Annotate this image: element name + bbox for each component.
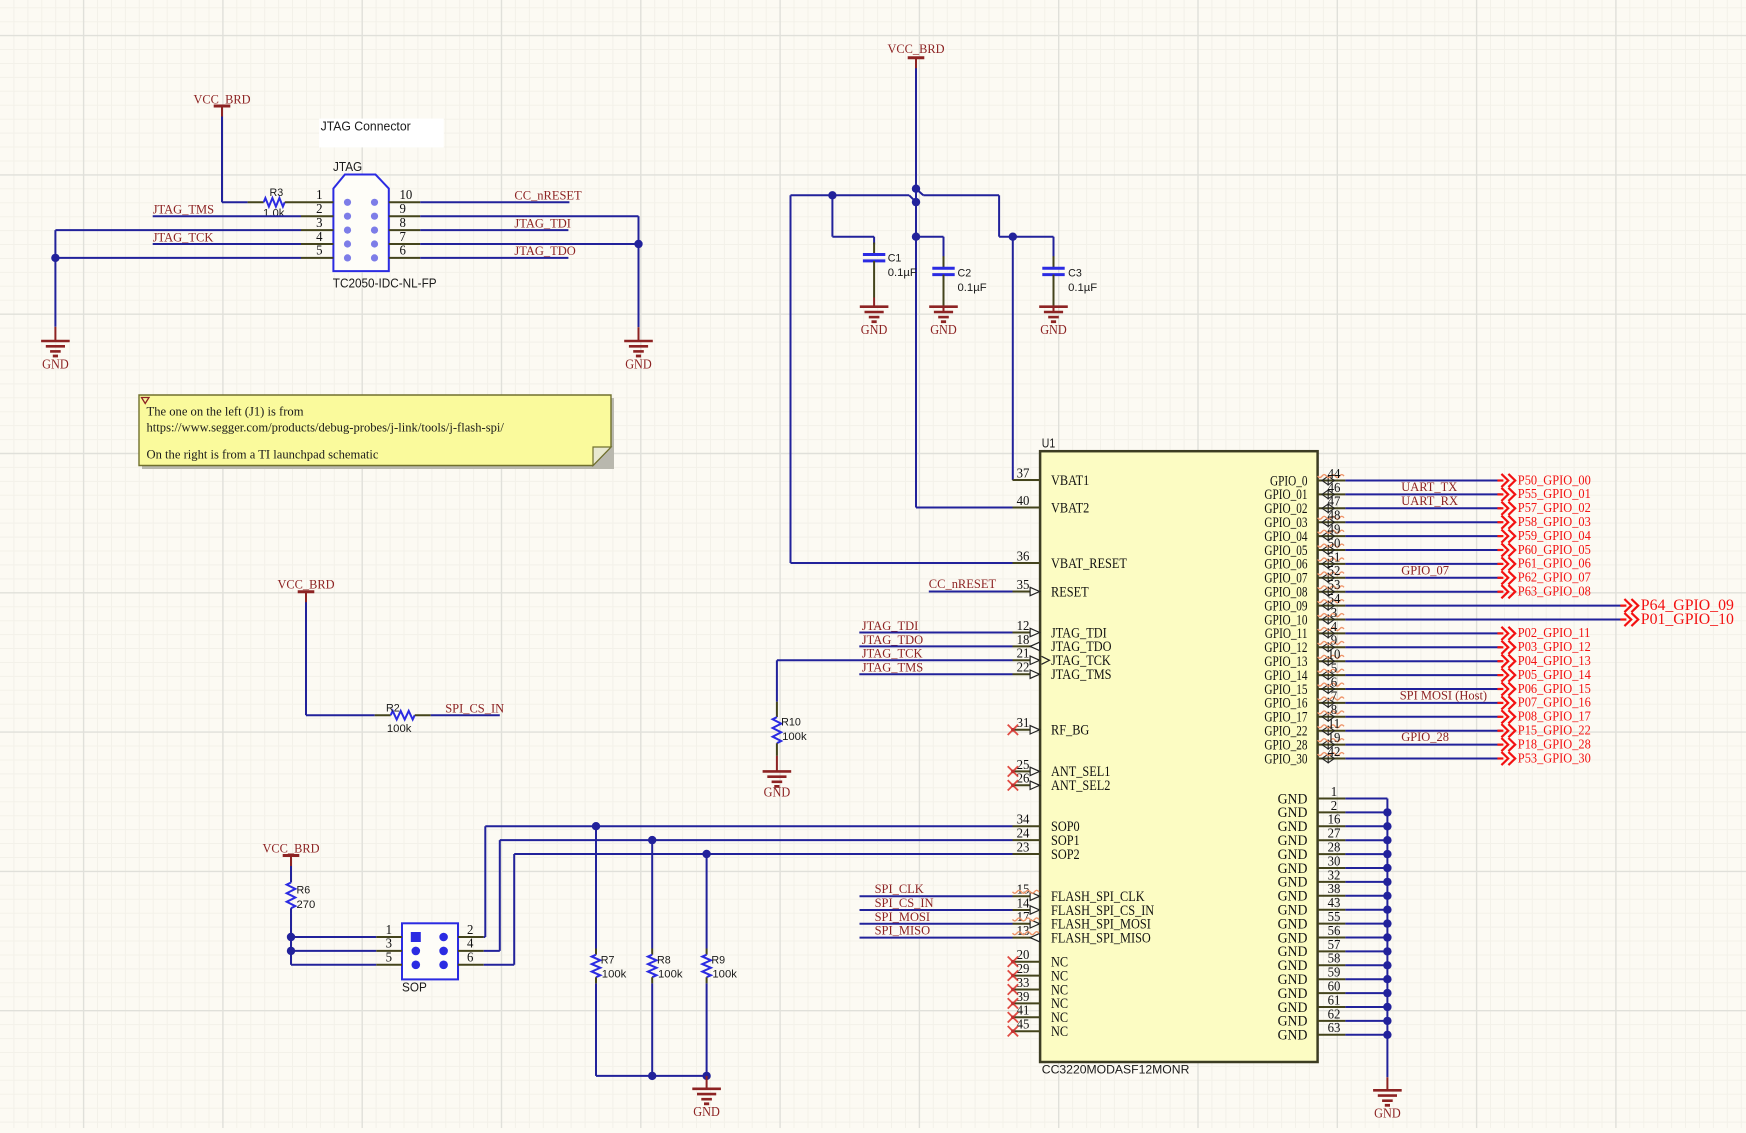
svg-text:3: 3 <box>316 215 323 230</box>
ground (left) <box>41 327 70 372</box>
pin 26 ANT_SEL2 <box>1008 771 1111 794</box>
pin 24 SOP1 <box>1013 826 1080 849</box>
pin 9 GPIO_12 <box>1264 633 1345 656</box>
svg-text:GND: GND <box>861 322 888 337</box>
wire <box>1345 839 1387 841</box>
junction <box>828 191 836 199</box>
resistor R9 100k <box>702 854 737 1076</box>
port P62_GPIO_07 <box>1497 571 1590 586</box>
net label SPI_MOSI <box>875 909 931 924</box>
svg-text:CC_nRESET: CC_nRESET <box>929 576 996 591</box>
wire JTAG_TDO <box>420 257 568 259</box>
svg-text:R3: R3 <box>270 187 284 199</box>
svg-text:P60_GPIO_05: P60_GPIO_05 <box>1518 543 1591 558</box>
svg-text:JTAG_TCK: JTAG_TCK <box>862 646 923 661</box>
pin 1 GND <box>1278 784 1346 807</box>
wire right branch <box>916 189 1054 237</box>
port P01_GPIO_10 <box>1620 611 1734 628</box>
wire <box>1345 549 1501 551</box>
svg-text:SPI_CS_IN: SPI_CS_IN <box>875 895 935 910</box>
pin 44 GPIO_0 <box>1270 466 1345 489</box>
wire <box>1345 730 1501 732</box>
resistor R10 100k <box>773 702 807 756</box>
wire to VBAT_RESET <box>791 195 1013 563</box>
pin 13 FLASH_SPI_MISO <box>1013 923 1151 946</box>
port P64_GPIO_09 <box>1620 597 1734 614</box>
svg-text:P08_GPIO_17: P08_GPIO_17 <box>1518 710 1591 725</box>
wire <box>1345 688 1501 690</box>
net label GPIO_28 <box>1401 729 1449 744</box>
junction <box>1383 850 1391 858</box>
net label SPI_CLK <box>875 881 925 896</box>
wire CC_nRESET <box>420 201 569 203</box>
junction <box>1383 836 1391 844</box>
svg-text:41: 41 <box>1017 1003 1030 1018</box>
wire <box>1345 480 1501 482</box>
svg-text:45: 45 <box>1017 1017 1030 1032</box>
svg-text:R2: R2 <box>386 703 400 715</box>
pin 17 FLASH_SPI_MOSI <box>1013 909 1151 932</box>
svg-text:1: 1 <box>386 922 392 937</box>
pin 22 JTAG_TMS <box>1013 660 1112 683</box>
svg-text:7: 7 <box>1331 688 1338 703</box>
wire to VBAT2 <box>916 507 1013 509</box>
wire JTAG_TMS <box>153 215 301 217</box>
junction <box>1383 808 1391 816</box>
svg-text:44: 44 <box>1328 466 1341 481</box>
svg-text:ANT_SEL2: ANT_SEL2 <box>1051 778 1110 794</box>
wire <box>1345 507 1501 509</box>
junction <box>1383 864 1391 872</box>
svg-text:57: 57 <box>1328 937 1341 952</box>
pin 56 GND <box>1278 923 1346 946</box>
wire <box>1345 744 1501 746</box>
svg-text:20: 20 <box>1017 947 1030 962</box>
svg-text:GND: GND <box>1374 1106 1401 1121</box>
svg-text:GND: GND <box>625 356 652 371</box>
wire <box>1345 619 1624 621</box>
junction <box>1383 961 1391 969</box>
svg-text:21: 21 <box>1017 646 1030 661</box>
svg-text:19: 19 <box>1328 730 1341 745</box>
svg-text:48: 48 <box>1328 508 1341 523</box>
svg-text:JTAG_TMS: JTAG_TMS <box>862 660 923 675</box>
port P63_GPIO_08 <box>1497 585 1590 600</box>
svg-text:P62_GPIO_07: P62_GPIO_07 <box>1518 571 1591 586</box>
wire JTAG_TDI <box>420 229 568 231</box>
svg-text:33: 33 <box>1017 975 1030 990</box>
wire SPI_MOSI <box>860 923 1013 925</box>
svg-text:49: 49 <box>1328 522 1341 537</box>
junction <box>1383 947 1391 955</box>
pin 62 GND <box>1278 1006 1346 1029</box>
svg-text:50: 50 <box>1328 535 1341 550</box>
capacitor C3 0.1uF <box>1042 237 1097 312</box>
svg-text:SPI_MOSI: SPI_MOSI <box>875 909 931 924</box>
wire SOP pin4 to SOP1 <box>484 840 1013 951</box>
svg-text:0.1µF: 0.1µF <box>1068 282 1097 294</box>
svg-text:CC_nRESET: CC_nRESET <box>514 188 581 203</box>
svg-text:JTAG Connector: JTAG Connector <box>321 118 412 133</box>
svg-text:3: 3 <box>386 936 393 951</box>
svg-text:5: 5 <box>386 950 393 965</box>
wire <box>1345 493 1501 495</box>
svg-text:VBAT_RESET: VBAT_RESET <box>1051 556 1127 572</box>
svg-text:100k: 100k <box>658 969 683 981</box>
resistor R7 100k <box>592 826 627 1076</box>
pin 11 GPIO_22 <box>1264 716 1345 739</box>
svg-text:10: 10 <box>400 187 413 202</box>
svg-text:61: 61 <box>1328 992 1341 1007</box>
svg-text:10: 10 <box>1328 647 1341 662</box>
svg-text:VBAT1: VBAT1 <box>1051 473 1089 489</box>
pin 5 GPIO_14 <box>1264 661 1345 684</box>
junction <box>634 240 642 248</box>
connector SOP <box>376 922 483 995</box>
ground (U1) <box>1373 1077 1402 1120</box>
junction <box>912 185 920 193</box>
svg-text:27: 27 <box>1328 826 1341 841</box>
svg-text:VCC_BRD: VCC_BRD <box>263 841 320 856</box>
svg-text:P03_GPIO_12: P03_GPIO_12 <box>1518 640 1591 655</box>
pin 61 GND <box>1278 992 1346 1015</box>
pin 20 NC <box>1008 947 1068 970</box>
svg-text:JTAG_TMS: JTAG_TMS <box>1051 667 1112 683</box>
pin 57 GND <box>1278 937 1346 960</box>
svg-text:46: 46 <box>1328 480 1341 495</box>
wire <box>1345 825 1387 827</box>
svg-text:GND: GND <box>930 322 957 337</box>
svg-text:GND: GND <box>693 1104 720 1119</box>
svg-text:P15_GPIO_22: P15_GPIO_22 <box>1518 724 1591 739</box>
svg-text:12: 12 <box>1017 618 1030 633</box>
pin 39 NC <box>1008 989 1068 1012</box>
svg-text:22: 22 <box>1017 660 1030 675</box>
ground (below R9) <box>692 1076 721 1119</box>
svg-text:63: 63 <box>1328 1020 1341 1035</box>
svg-text:UART_TX: UART_TX <box>1401 479 1458 494</box>
svg-text:62: 62 <box>1328 1006 1341 1021</box>
svg-text:53: 53 <box>1328 577 1341 592</box>
svg-text:3: 3 <box>1331 605 1338 620</box>
pin 10 GPIO_13 <box>1264 647 1345 670</box>
svg-text:2: 2 <box>467 922 473 937</box>
net label CC_nRESET (U1) <box>929 576 996 591</box>
svg-text:P05_GPIO_14: P05_GPIO_14 <box>1518 668 1591 683</box>
wire pin5 <box>55 257 301 259</box>
pin 6 GPIO_15 <box>1264 674 1345 697</box>
svg-text:100k: 100k <box>387 723 412 735</box>
svg-text:On the right is from a TI laun: On the right is from a TI launchpad sche… <box>147 448 379 462</box>
svg-text:6: 6 <box>467 950 474 965</box>
svg-text:270: 270 <box>297 899 316 911</box>
svg-text:P55_GPIO_01: P55_GPIO_01 <box>1518 487 1591 502</box>
svg-text:VBAT2: VBAT2 <box>1051 500 1089 516</box>
pin 8 GPIO_17 <box>1264 702 1345 725</box>
pin 30 GND <box>1278 853 1346 876</box>
pin 40 VBAT2 <box>1013 493 1090 516</box>
svg-text:100k: 100k <box>782 731 807 743</box>
junction <box>702 850 710 858</box>
junction <box>1009 233 1017 241</box>
svg-text:40: 40 <box>1017 493 1030 508</box>
pin 18 JTAG_TDO <box>1013 632 1112 655</box>
junction <box>1383 933 1391 941</box>
wire resistor bottoms <box>596 1075 707 1077</box>
wire JTAG_TMS <box>859 673 1012 675</box>
ground <box>1039 307 1068 337</box>
svg-text:https://www.segger.com/product: https://www.segger.com/products/debug-pr… <box>147 420 505 434</box>
resistor R6 270 <box>287 883 316 912</box>
wire GND bus <box>1386 799 1388 1078</box>
svg-text:P01_GPIO_10: P01_GPIO_10 <box>1641 611 1734 628</box>
svg-text:55: 55 <box>1328 909 1341 924</box>
svg-text:GND: GND <box>764 784 791 799</box>
svg-text:JTAG: JTAG <box>333 160 362 174</box>
svg-text:P07_GPIO_16: P07_GPIO_16 <box>1518 696 1591 711</box>
svg-text:8: 8 <box>400 215 407 230</box>
svg-text:47: 47 <box>1328 494 1341 509</box>
svg-text:4: 4 <box>1331 619 1338 634</box>
net label JTAG_TDI (U1) <box>862 618 919 633</box>
pin 51 GPIO_06 <box>1264 549 1345 572</box>
svg-text:15: 15 <box>1017 882 1030 897</box>
wire pin3 to GND <box>55 230 301 327</box>
power VCC_BRD (SOP section) <box>263 841 320 868</box>
port P08_GPIO_17 <box>1497 710 1590 725</box>
svg-text:P02_GPIO_11: P02_GPIO_11 <box>1518 626 1591 641</box>
svg-text:SOP: SOP <box>402 981 427 995</box>
svg-text:JTAG_TDO: JTAG_TDO <box>862 632 923 647</box>
port P07_GPIO_16 <box>1497 696 1590 711</box>
port P60_GPIO_05 <box>1497 543 1590 558</box>
svg-text:P53_GPIO_30: P53_GPIO_30 <box>1518 751 1591 766</box>
svg-text:GND: GND <box>1278 1028 1308 1044</box>
svg-text:U1: U1 <box>1042 436 1055 450</box>
svg-text:16: 16 <box>1328 812 1341 827</box>
power VCC_BRD (main) <box>888 41 945 69</box>
net label SPI_CS_IN <box>445 701 505 716</box>
svg-text:VCC_BRD: VCC_BRD <box>194 92 251 107</box>
port P57_GPIO_02 <box>1497 501 1590 516</box>
pin 36 VBAT_RESET <box>1013 548 1127 571</box>
wire <box>222 117 248 203</box>
net label GPIO_07 <box>1401 563 1449 578</box>
junction <box>648 836 656 844</box>
svg-text:17: 17 <box>1017 909 1030 924</box>
junction <box>287 947 295 955</box>
svg-text:54: 54 <box>1328 591 1341 606</box>
svg-text:1: 1 <box>316 187 322 202</box>
svg-text:31: 31 <box>1017 715 1030 730</box>
svg-text:38: 38 <box>1328 881 1341 896</box>
port P02_GPIO_11 <box>1497 626 1590 641</box>
svg-text:35: 35 <box>1017 577 1030 592</box>
ground (right of JTAG) <box>624 327 653 371</box>
wire <box>1345 1034 1387 1036</box>
port P61_GPIO_06 <box>1497 557 1590 572</box>
wire <box>1345 660 1501 662</box>
wire <box>1345 923 1387 925</box>
svg-text:JTAG_TDI: JTAG_TDI <box>514 215 571 230</box>
wire <box>1345 937 1387 939</box>
svg-text:25: 25 <box>1017 757 1030 772</box>
svg-text:RF_BG: RF_BG <box>1051 723 1089 739</box>
pin 46 GPIO_01 <box>1264 480 1345 503</box>
pin 14 FLASH_SPI_CS_IN <box>1013 895 1155 918</box>
wire <box>1345 992 1387 994</box>
pin 29 NC <box>1008 961 1068 984</box>
svg-text:36: 36 <box>1017 548 1030 563</box>
net label JTAG_TDI <box>514 215 571 230</box>
svg-text:GPIO_30: GPIO_30 <box>1264 751 1307 767</box>
pin 59 GND <box>1278 965 1346 988</box>
svg-text:R9: R9 <box>711 955 725 967</box>
net label JTAG_TMS <box>153 202 214 217</box>
pin 19 GPIO_28 <box>1264 730 1345 753</box>
wire SPI_MISO <box>860 937 1013 939</box>
IC U1 CC3220MODASF12MONR body <box>1040 436 1318 1076</box>
wire <box>1345 577 1501 579</box>
pin 48 GPIO_03 <box>1264 508 1345 531</box>
pin 4 GPIO_11 <box>1265 619 1346 642</box>
connector JTAG TC2050-IDC-NL-FP <box>301 160 437 291</box>
pin 34 SOP0 <box>1013 812 1080 835</box>
wire <box>1345 811 1387 813</box>
port P58_GPIO_03 <box>1497 515 1590 530</box>
svg-text:SPI_CS_IN: SPI_CS_IN <box>445 701 505 716</box>
wire to C1 <box>832 195 874 236</box>
wire <box>1345 702 1501 704</box>
svg-text:24: 24 <box>1017 826 1030 841</box>
junction <box>1383 919 1391 927</box>
svg-text:P50_GPIO_00: P50_GPIO_00 <box>1518 473 1591 488</box>
svg-text:GND: GND <box>42 356 69 371</box>
junction <box>1383 975 1391 983</box>
svg-text:2: 2 <box>1331 798 1337 813</box>
svg-text:13: 13 <box>1017 923 1030 938</box>
wire JTAG_TCK <box>153 243 301 245</box>
pin 47 GPIO_02 <box>1264 494 1345 517</box>
port P05_GPIO_14 <box>1497 668 1590 683</box>
svg-text:JTAG_TDO: JTAG_TDO <box>514 243 575 258</box>
wire <box>1345 535 1501 537</box>
wire <box>1345 716 1501 718</box>
net label JTAG_TMS (U1) <box>862 660 923 675</box>
svg-text:GPIO_07: GPIO_07 <box>1401 563 1449 578</box>
wire <box>1345 632 1501 634</box>
svg-text:11: 11 <box>1328 716 1340 731</box>
wire R6 to SOP pins <box>291 908 376 965</box>
junction <box>648 1072 656 1080</box>
wire <box>306 602 375 715</box>
svg-text:42: 42 <box>1328 744 1341 759</box>
svg-text:100k: 100k <box>712 969 737 981</box>
wire JTAG_TDO <box>859 645 1012 647</box>
svg-text:60: 60 <box>1328 979 1341 994</box>
svg-text:32: 32 <box>1328 867 1341 882</box>
wire left branch <box>791 195 917 202</box>
svg-text:JTAG_TMS: JTAG_TMS <box>153 202 214 217</box>
wire <box>1345 867 1387 869</box>
svg-text:7: 7 <box>400 229 407 244</box>
capacitor C1 0.1uF <box>863 237 917 298</box>
svg-text:51: 51 <box>1328 549 1341 564</box>
net label UART_RX <box>1401 493 1458 508</box>
net label SPI_CS_IN <box>875 895 935 910</box>
wire <box>1345 591 1501 593</box>
pin 33 NC <box>1008 975 1068 998</box>
pin 63 GND <box>1278 1020 1346 1043</box>
pin 58 GND <box>1278 951 1346 974</box>
svg-text:FLASH_SPI_MISO: FLASH_SPI_MISO <box>1051 930 1151 946</box>
wire <box>1345 1006 1387 1008</box>
wire RESET <box>929 591 1013 593</box>
svg-text:P58_GPIO_03: P58_GPIO_03 <box>1518 515 1591 530</box>
power VCC_BRD (JTAG section) <box>194 92 251 118</box>
svg-text:GND: GND <box>1040 322 1067 337</box>
svg-text:SPI_CLK: SPI_CLK <box>875 881 925 896</box>
wire VCC down to VBAT2 <box>915 68 917 507</box>
capacitor C2 0.1uF <box>932 237 986 312</box>
net label UART_TX <box>1401 479 1458 494</box>
svg-text:RESET: RESET <box>1051 584 1089 600</box>
port P04_GPIO_13 <box>1497 654 1590 669</box>
port P55_GPIO_01 <box>1497 487 1590 502</box>
svg-text:26: 26 <box>1017 771 1030 786</box>
ground <box>929 307 958 337</box>
resistor R8 100k <box>648 840 683 1076</box>
wire SOP pin2 to SOP0 <box>484 826 1013 937</box>
port P50_GPIO_00 <box>1497 473 1590 488</box>
svg-text:C2: C2 <box>958 268 972 280</box>
junction <box>1383 906 1391 914</box>
wire to VBAT1 <box>1012 237 1014 480</box>
net label SPI MOSI (Host) <box>1400 688 1487 703</box>
svg-text:P06_GPIO_15: P06_GPIO_15 <box>1518 682 1591 697</box>
svg-text:P04_GPIO_13: P04_GPIO_13 <box>1518 654 1591 669</box>
port P06_GPIO_15 <box>1497 682 1590 697</box>
wire pin9 <box>420 216 638 244</box>
resistor R3 1.0k <box>248 187 301 220</box>
svg-text:P63_GPIO_08: P63_GPIO_08 <box>1518 585 1591 600</box>
ground <box>860 298 889 338</box>
pin 35 RESET <box>1013 577 1089 600</box>
svg-text:14: 14 <box>1017 895 1030 910</box>
svg-text:TC2050-IDC-NL-FP: TC2050-IDC-NL-FP <box>333 277 437 291</box>
wire SPI_CS_IN <box>860 909 1013 911</box>
pin 45 NC <box>1008 1017 1068 1040</box>
pin 12 JTAG_TDI <box>1013 618 1107 641</box>
pin 7 GPIO_16 <box>1264 688 1345 711</box>
wire SPI_CLK <box>860 895 1013 897</box>
wire <box>1345 895 1387 897</box>
svg-text:4: 4 <box>467 936 474 951</box>
svg-text:P61_GPIO_06: P61_GPIO_06 <box>1518 557 1591 572</box>
svg-text:52: 52 <box>1328 563 1341 578</box>
svg-text:VCC_BRD: VCC_BRD <box>888 41 945 56</box>
svg-text:JTAG_TDI: JTAG_TDI <box>862 618 919 633</box>
pin 2 GND <box>1278 798 1346 821</box>
pin 49 GPIO_04 <box>1264 522 1345 545</box>
junction <box>592 822 600 830</box>
wire <box>1345 1020 1387 1022</box>
resistor R2 100k <box>375 703 431 735</box>
net label SPI_MISO <box>875 923 931 938</box>
wire <box>1345 798 1387 800</box>
svg-text:The one on the left (J1) is fr: The one on the left (J1) is from <box>147 404 304 418</box>
svg-text:9: 9 <box>400 201 407 216</box>
